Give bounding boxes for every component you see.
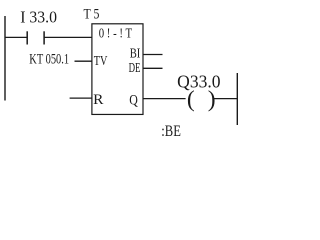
wire: R input stub bbox=[70, 97, 93, 99]
contact I33.0 (normally open) bbox=[27, 31, 44, 44]
left power rail bbox=[4, 16, 6, 101]
svg-text:T 5: T 5 bbox=[84, 6, 100, 22]
svg-text::BE: :BE bbox=[161, 123, 181, 140]
wire: rail to contact bbox=[5, 36, 28, 38]
svg-text:I 33.0: I 33.0 bbox=[20, 8, 57, 27]
svg-text:Q33.0: Q33.0 bbox=[177, 72, 221, 92]
timer box T5 bbox=[92, 24, 143, 115]
wire: coil to right rail bbox=[214, 98, 238, 100]
wire: BI output stub bbox=[143, 54, 162, 56]
svg-text:R: R bbox=[93, 92, 103, 108]
svg-text:KT 050.1: KT 050.1 bbox=[29, 52, 69, 68]
svg-text:Q: Q bbox=[129, 92, 138, 108]
svg-text:0 ! - ! T: 0 ! - ! T bbox=[99, 26, 133, 41]
wire: contact to timer start input bbox=[44, 36, 92, 38]
wire: DE output stub bbox=[143, 67, 162, 69]
right power rail bbox=[236, 73, 238, 125]
wire: KT 050.1 to TV input bbox=[75, 60, 93, 62]
svg-text:DE: DE bbox=[129, 60, 141, 75]
svg-text:TV: TV bbox=[94, 53, 108, 69]
wire: Q output to coil bbox=[143, 98, 185, 100]
svg-text:BI: BI bbox=[130, 45, 141, 61]
coil Q33.0 bbox=[187, 87, 216, 113]
